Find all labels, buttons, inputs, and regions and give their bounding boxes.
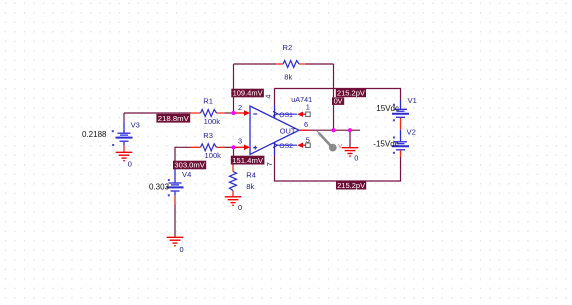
svg-text:V1: V1 [408, 96, 417, 105]
wire R2 to output node [333, 64, 335, 130]
svg-text:0.303: 0.303 [149, 183, 170, 192]
ground 0 under R4 [225, 197, 242, 212]
svg-text:303.0mV: 303.0mV [174, 161, 205, 170]
wire R3 left to V4 [175, 147, 191, 170]
wire R2 right [306, 63, 334, 65]
svg-text:V: V [338, 144, 342, 150]
wire R1 right to node 2 [225, 112, 234, 114]
junction output ground [348, 128, 352, 132]
svg-text:8k: 8k [246, 182, 254, 191]
svg-text:8k: 8k [284, 73, 292, 82]
wire R3 right to node 3 [225, 146, 234, 148]
bias label 109.4mV [231, 89, 264, 98]
svg-text:109.4mV: 109.4mV [233, 89, 263, 98]
wire V3 stem [123, 113, 125, 122]
wire node3 down [233, 147, 235, 156]
battery V1 [376, 96, 416, 130]
pin 4 stub [274, 106, 276, 119]
wire V4 bottom to ground [174, 205, 176, 237]
bias label 303.0mV [173, 161, 206, 170]
svg-text:V2: V2 [407, 127, 416, 136]
svg-text:OS2: OS2 [279, 143, 293, 150]
resistor R2 8k [276, 43, 306, 81]
svg-text:0V: 0V [334, 97, 343, 106]
svg-text:0: 0 [180, 245, 184, 254]
svg-text:15Vdc: 15Vdc [376, 104, 399, 113]
junction output R2 [331, 128, 335, 132]
svg-text:6: 6 [304, 120, 308, 129]
svg-text:0.2188: 0.2188 [82, 130, 107, 139]
svg-text:R3: R3 [203, 131, 213, 140]
svg-text:0: 0 [354, 154, 358, 163]
svg-text:OS1: OS1 [279, 112, 293, 119]
pin 5 OS2 [273, 143, 278, 148]
svg-text:4: 4 [264, 95, 273, 99]
svg-text:OUT: OUT [280, 127, 296, 136]
pin 7 stub [274, 142, 276, 155]
pin 3 arrow [234, 146, 245, 148]
wire V- supply pin7 to V2 [275, 156, 401, 182]
bias label 151.4mV [231, 156, 265, 165]
voltage probe marker [317, 131, 342, 152]
bias label 215.2pV top [336, 89, 366, 98]
resistor R1 100k [191, 97, 225, 127]
svg-text:151.4mV: 151.4mV [232, 156, 263, 165]
op-amp U1 uA741 [234, 95, 313, 167]
wire output [310, 129, 360, 131]
ground 0 under V3 [116, 152, 133, 168]
svg-text:R2: R2 [283, 43, 293, 52]
svg-text:0: 0 [128, 160, 132, 169]
bias label 218.8mV [156, 114, 190, 123]
svg-text:5: 5 [306, 136, 310, 145]
svg-text:0: 0 [238, 203, 242, 212]
svg-text:3: 3 [238, 137, 242, 146]
wire V3 top to R1 left [124, 112, 191, 114]
pin 2 arrow [234, 112, 245, 114]
svg-text:215.2pV: 215.2pV [337, 181, 365, 190]
wire R2 left [234, 63, 277, 65]
svg-text:100k: 100k [205, 151, 222, 160]
junction node 2 [231, 111, 235, 115]
wire output to ground [349, 130, 351, 147]
svg-text:R4: R4 [246, 171, 256, 180]
battery V3 [82, 121, 140, 152]
svg-text:R1: R1 [203, 97, 213, 106]
ground 0 at output [342, 148, 359, 163]
resistor R4 8k [230, 158, 257, 197]
svg-text:V3: V3 [131, 121, 140, 130]
svg-text:2: 2 [238, 103, 242, 112]
svg-text:100k: 100k [204, 117, 221, 126]
battery V2 [373, 127, 415, 157]
wire node2 vertical to R2 row [233, 64, 235, 113]
svg-text:218.8mV: 218.8mV [158, 114, 189, 123]
pin 6 output stub [299, 129, 310, 131]
svg-text:-15Vdc: -15Vdc [373, 139, 398, 148]
svg-text:7: 7 [265, 162, 274, 166]
junction node 3 [231, 145, 235, 149]
svg-text:V4: V4 [182, 170, 191, 179]
wire V+ supply pin4 to V1 [275, 89, 401, 106]
resistor R3 100k [191, 131, 225, 160]
svg-text:1: 1 [306, 103, 310, 112]
bias label 0V [332, 97, 344, 106]
battery V4 [149, 170, 191, 205]
ground 0 under V4 [167, 237, 184, 254]
pin 1 OS1 [273, 111, 278, 116]
bias label 215.2pV bottom [336, 181, 366, 190]
